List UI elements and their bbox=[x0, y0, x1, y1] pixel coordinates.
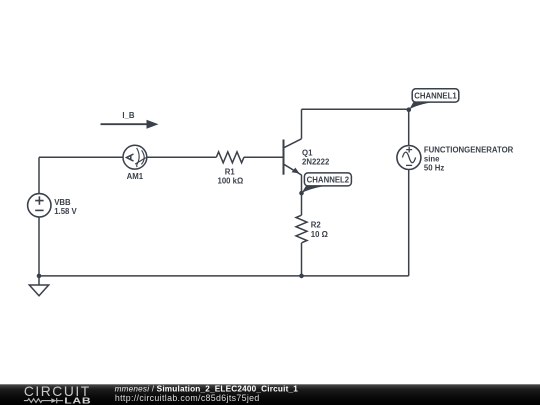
node CHANNEL1 junction bbox=[407, 107, 412, 112]
label FUNCTIONGENERATOR sine 50 Hz bbox=[424, 145, 514, 172]
wire: bottom horizontal bbox=[39, 275, 409, 277]
node ground junction bbox=[37, 274, 42, 279]
resistor R2 bbox=[296, 215, 307, 243]
ground bbox=[29, 276, 48, 296]
label R2 10 Ω bbox=[311, 220, 328, 238]
node CHANNEL2 junction bbox=[299, 191, 304, 196]
svg-text:2N2222: 2N2222 bbox=[302, 158, 330, 167]
probe CHANNEL1 bbox=[409, 89, 459, 110]
svg-text:http://circuitlab.com/c85d6jts: http://circuitlab.com/c85d6jts75jed bbox=[115, 393, 260, 403]
footer bar bbox=[0, 384, 540, 405]
svg-text:I_B: I_B bbox=[122, 111, 135, 120]
svg-text:CHANNEL1: CHANNEL1 bbox=[414, 91, 457, 100]
current arrow I_B bbox=[101, 120, 159, 129]
svg-text:sine: sine bbox=[424, 154, 440, 163]
wire: top horizontal collector to function generator bbox=[302, 108, 409, 110]
svg-text:R2: R2 bbox=[311, 220, 322, 229]
voltage source VBB bbox=[28, 194, 51, 217]
ammeter AM1 bbox=[123, 145, 147, 169]
svg-text:10 Ω: 10 Ω bbox=[311, 230, 328, 239]
wire: function generator vertical bbox=[408, 109, 410, 276]
svg-text:Q1: Q1 bbox=[302, 148, 313, 157]
wire: emitter to R2 bbox=[301, 175, 303, 215]
svg-text:AM1: AM1 bbox=[127, 172, 144, 181]
wire: top-left horizontal from VBB branch to R1 bbox=[39, 156, 216, 158]
resistor R1 bbox=[216, 152, 244, 163]
svg-text:FUNCTIONGENERATOR: FUNCTIONGENERATOR bbox=[424, 145, 514, 154]
probe CHANNEL2 bbox=[302, 173, 352, 193]
svg-text:CHANNEL2: CHANNEL2 bbox=[307, 175, 350, 184]
label R1 100 kΩ bbox=[218, 167, 244, 185]
CircuitLab logo resistor-diode glyph bbox=[24, 398, 63, 403]
wire: left vertical VBB branch bbox=[38, 157, 40, 276]
transistor Q1 bbox=[284, 139, 302, 175]
label Q1 2N2222 bbox=[302, 148, 330, 166]
wire: R2 to bottom wire bbox=[301, 243, 303, 276]
function generator bbox=[397, 146, 421, 170]
wire: collector riser bbox=[301, 109, 303, 139]
label VBB 1.58 V bbox=[54, 198, 77, 216]
wire: R1 to Q1 base bbox=[244, 156, 284, 158]
node R2 bottom junction bbox=[299, 274, 304, 279]
svg-text:100 kΩ: 100 kΩ bbox=[218, 177, 244, 186]
svg-text:LAB: LAB bbox=[64, 397, 91, 405]
svg-text:1.58 V: 1.58 V bbox=[54, 207, 77, 216]
svg-text:50 Hz: 50 Hz bbox=[424, 163, 444, 172]
svg-text:R1: R1 bbox=[225, 167, 236, 176]
svg-text:VBB: VBB bbox=[54, 198, 71, 207]
